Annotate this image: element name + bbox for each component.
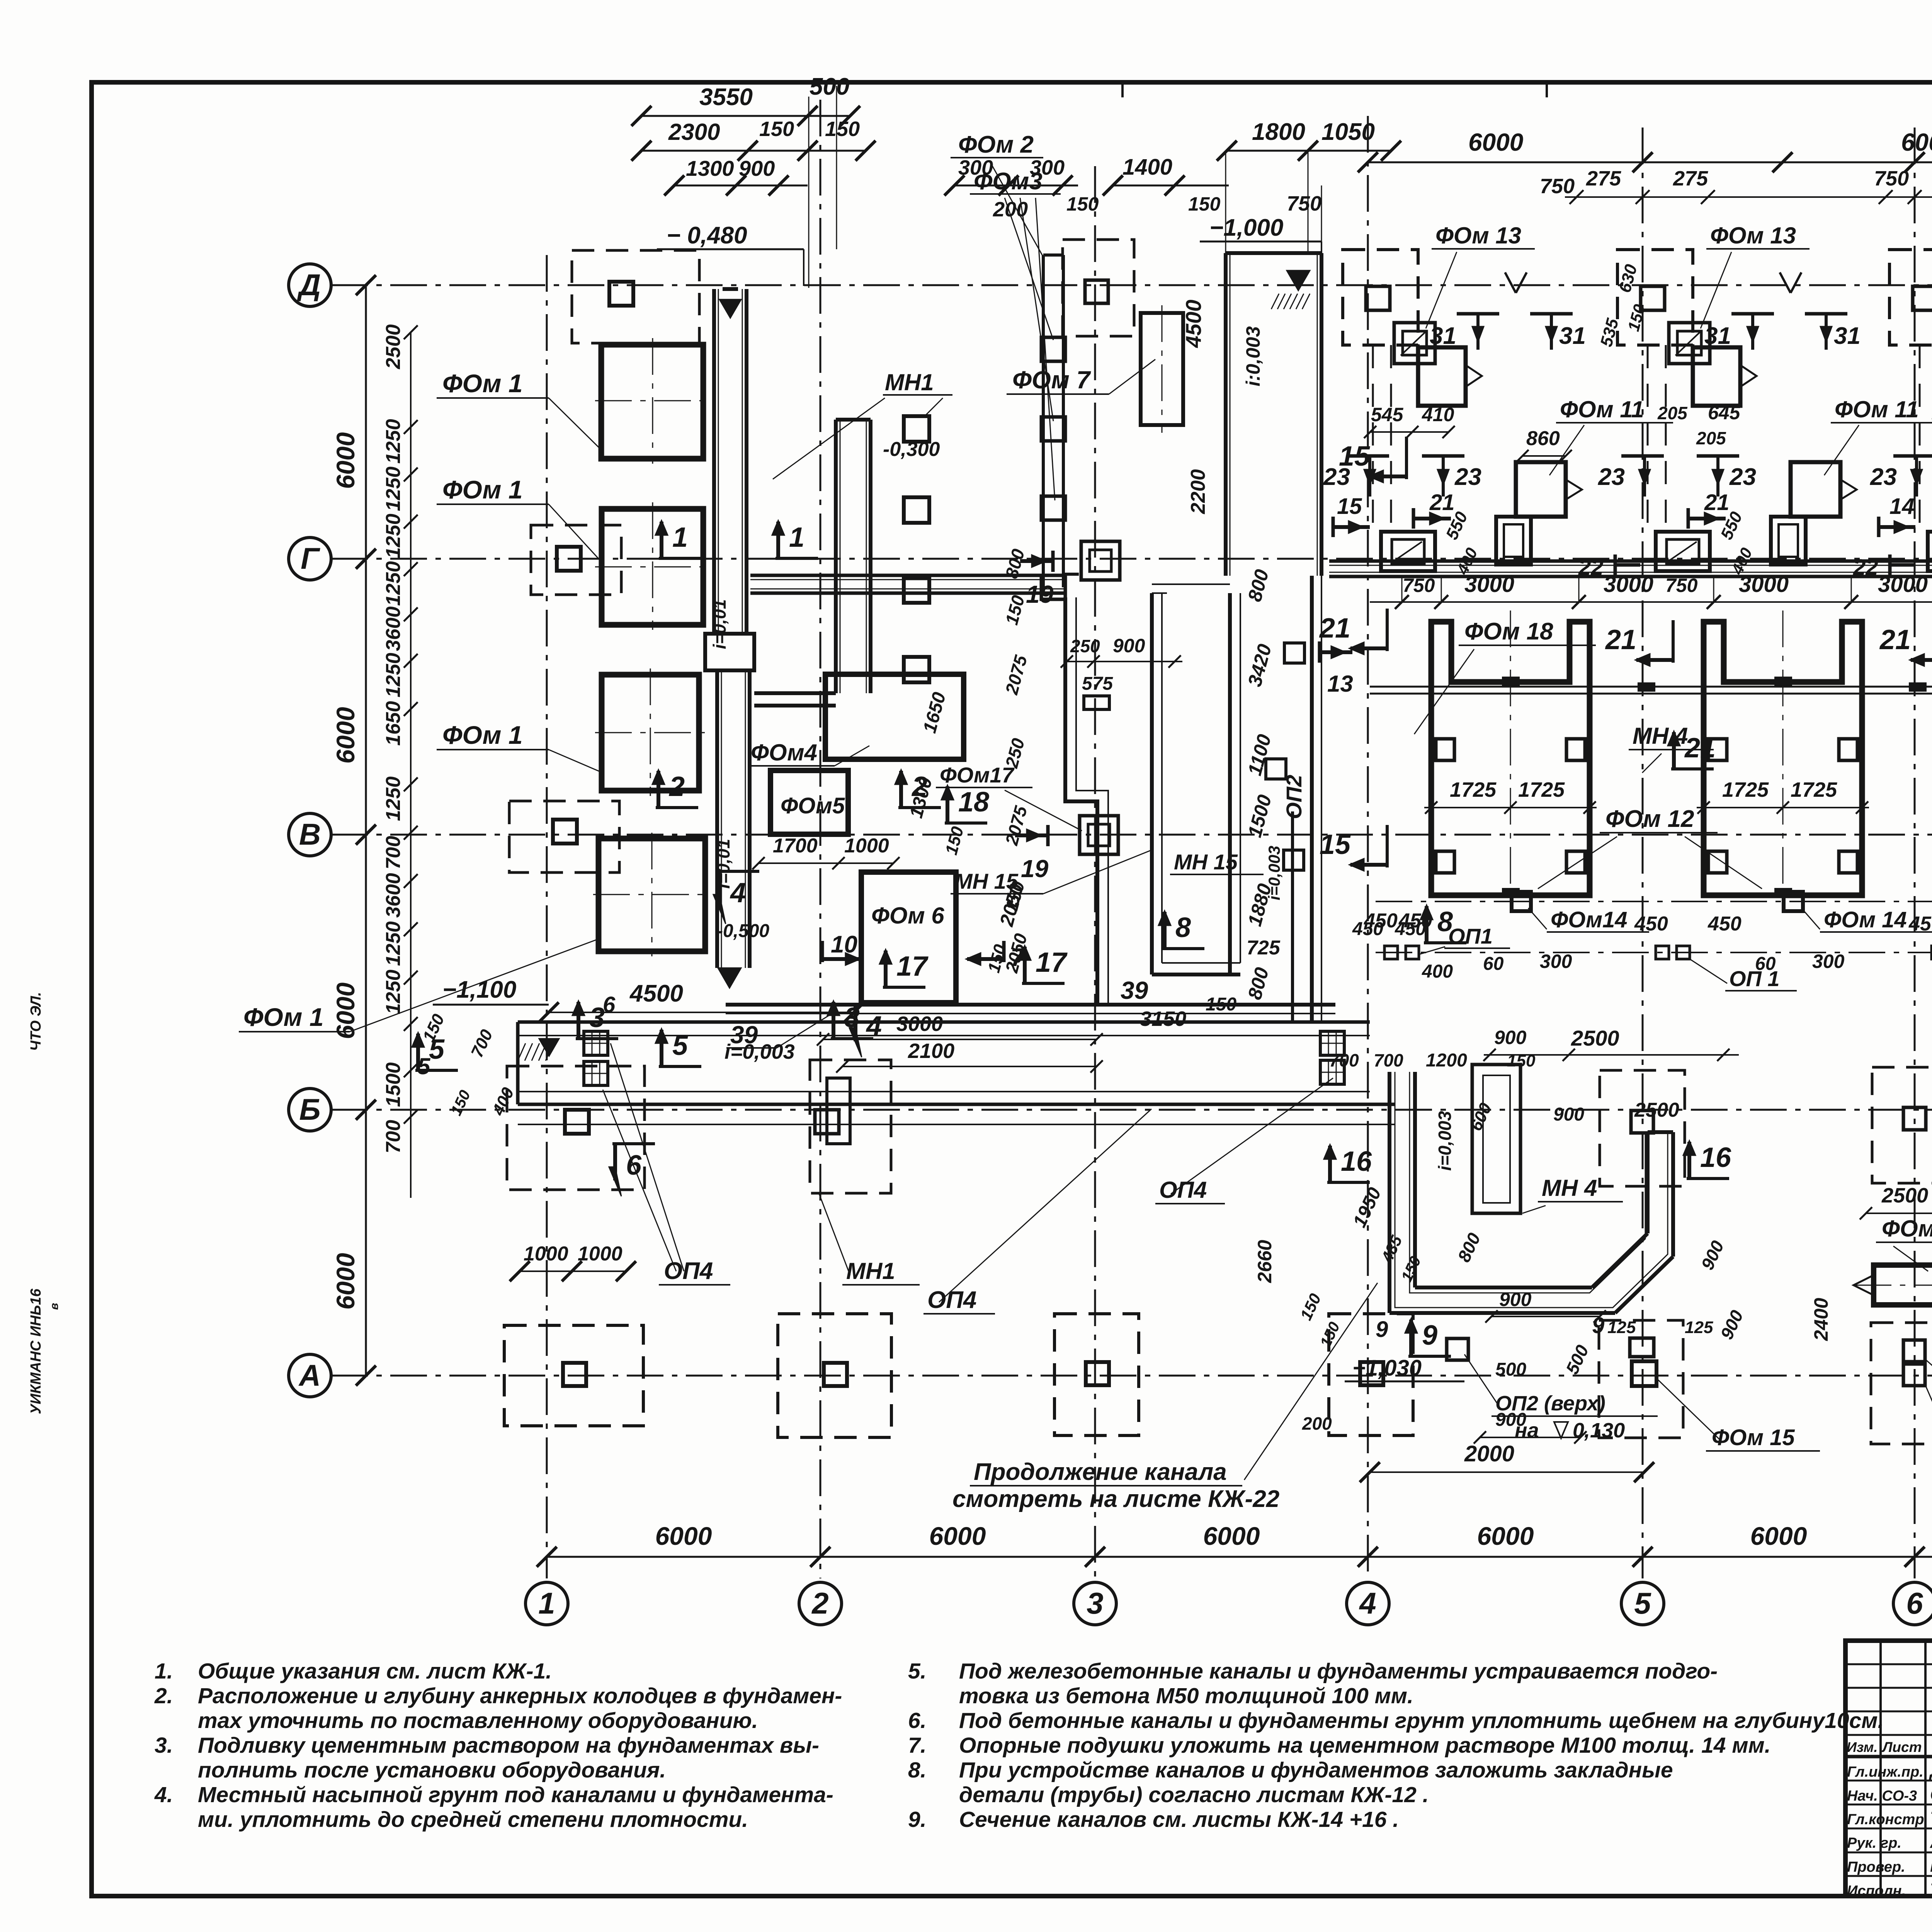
svg-text:1000: 1000 [524, 1243, 568, 1265]
trench hatch left [518, 1043, 526, 1061]
svg-text:ФОм 15: ФОм 15 [1712, 1425, 1795, 1450]
pad 575 rect [1084, 696, 1109, 709]
svg-text:750: 750 [1874, 167, 1909, 190]
svg-text:смотреть на листе КЖ-22: смотреть на листе КЖ-22 [952, 1486, 1279, 1512]
kanala leader [1244, 1283, 1378, 1480]
svg-text:1700: 1700 [773, 835, 818, 857]
svg-text:− 0,480: − 0,480 [667, 222, 747, 249]
section 23 marks [1621, 454, 1664, 458]
axis bubble 5 [1621, 1582, 1664, 1625]
svg-text:1250: 1250 [382, 921, 405, 966]
svg-text:−1,100: −1,100 [442, 976, 516, 1003]
dim 2000 row A [1370, 1471, 1644, 1473]
svg-text:15: 15 [1320, 829, 1351, 860]
section 19 upper mark and pad [1051, 551, 1055, 572]
boiler axis dashed band [1372, 345, 1374, 532]
svg-text:ОП4: ОП4 [1159, 1177, 1207, 1203]
axis line Г [331, 558, 1932, 560]
section 5 right [659, 1065, 701, 1068]
footing dashed row A col3 [1054, 1314, 1139, 1435]
foundation FOm4 area [825, 674, 964, 759]
foundation FOm1 block 2 [602, 509, 703, 625]
svg-text:15: 15 [1339, 441, 1370, 472]
svg-text:Нач. СО-3: Нач. СО-3 [1847, 1788, 1917, 1804]
channel along B to col4 [518, 1124, 1395, 1125]
jog channel around FOm17 pads [1065, 597, 1097, 1005]
svg-text:Апсе .: Апсе . [1930, 1832, 1932, 1852]
svg-text:410: 410 [1422, 404, 1454, 425]
dim 900 op2 [1492, 1316, 1600, 1317]
svg-text:300: 300 [1812, 951, 1845, 972]
svg-text:10: 10 [831, 931, 857, 958]
section 21 marks combs [1386, 609, 1389, 651]
FOm2 leader line [989, 160, 1043, 257]
burner foundation rect [1693, 347, 1740, 406]
footing dashed row A col1 [504, 1325, 643, 1426]
svg-text:1800: 1800 [1252, 119, 1305, 145]
svg-text:i=0,003: i=0,003 [1435, 1111, 1455, 1171]
dims 3000 2100 3150 [823, 1039, 1097, 1040]
tall pad [1496, 517, 1531, 565]
comb gap filled pads [1638, 683, 1655, 691]
svg-text:Олешко: Олешко [1930, 1784, 1932, 1804]
canal below G right wall [1310, 576, 1314, 1022]
svg-text:МН 15: МН 15 [1174, 850, 1238, 874]
svg-text:21: 21 [1319, 613, 1350, 644]
svg-text:ОП4: ОП4 [664, 1258, 713, 1284]
svg-text:8: 8 [1437, 906, 1453, 937]
top dimension 1300/900 [674, 185, 808, 187]
svg-text:3150: 3150 [1140, 1007, 1186, 1031]
svg-text:Б: Б [299, 1092, 320, 1126]
foundation FOm1 block 1 [601, 345, 703, 459]
FOm13 dashed footing col 5 [1617, 250, 1693, 345]
svg-text:ФОм 16: ФОм 16 [1882, 1216, 1932, 1242]
svg-text:4: 4 [866, 1011, 882, 1042]
comb pads [1436, 739, 1454, 760]
svg-text:1: 1 [789, 522, 804, 553]
svg-text:Рук. гр.: Рук. гр. [1847, 1835, 1901, 1851]
svg-text:2400: 2400 [1810, 1298, 1832, 1341]
svg-text:900: 900 [1499, 1289, 1532, 1310]
svg-text:3000: 3000 [1604, 572, 1653, 597]
svg-text:1250: 1250 [382, 776, 405, 821]
svg-text:0,130: 0,130 [1573, 1419, 1625, 1442]
fold mark top 2 [1546, 82, 1548, 97]
svg-text:21: 21 [1429, 490, 1455, 515]
svg-text:ФОм3: ФОм3 [974, 168, 1043, 195]
svg-text:3: 3 [1087, 1586, 1103, 1620]
FOm13 dashed footing col 4 [1343, 250, 1418, 345]
svg-text:ФОм 1: ФОм 1 [442, 475, 523, 504]
channel MN1 junction box [705, 634, 754, 670]
svg-text:i=0,01: i=0,01 [709, 599, 730, 649]
canal central wide [1224, 253, 1228, 576]
svg-text:ОП2: ОП2 [1282, 775, 1306, 819]
svg-text:6000: 6000 [655, 1522, 712, 1550]
svg-text:1250: 1250 [382, 653, 405, 697]
svg-text:450: 450 [1908, 913, 1932, 935]
section 31 right [1805, 312, 1847, 316]
section 18 mark [945, 821, 987, 825]
section 31 right [1530, 312, 1573, 316]
title block outline [1845, 1641, 1932, 1896]
svg-text:8.: 8. [908, 1758, 927, 1782]
svg-text:Общие указания см. лист КЖ: Общие указания см. лист КЖ-1. [198, 1659, 552, 1684]
svg-text:1725: 1725 [1722, 778, 1769, 801]
footing FOm15 col5 [1599, 1320, 1683, 1438]
svg-text:4500: 4500 [629, 980, 683, 1007]
svg-text:3000: 3000 [1878, 572, 1928, 597]
svg-text:ФОм4: ФОм4 [751, 740, 817, 765]
svg-text:ФОм 11: ФОм 11 [1835, 396, 1919, 422]
svg-text:3.: 3. [155, 1733, 173, 1758]
channel H39 [726, 1003, 1335, 1007]
dims 1700 1000 [759, 862, 893, 864]
svg-text:250: 250 [1070, 636, 1100, 656]
pi loop top connector [1152, 583, 1230, 585]
channel G horizontal left [750, 574, 1065, 577]
svg-text:31: 31 [1834, 323, 1861, 349]
svg-text:ФОм14: ФОм14 [1551, 907, 1628, 932]
section 19 lower mark [1046, 825, 1050, 846]
svg-text:1725: 1725 [1518, 778, 1565, 801]
svg-text:21: 21 [1879, 624, 1911, 655]
section 7 mark [1002, 941, 1006, 962]
svg-text:5: 5 [429, 1034, 445, 1065]
section 15 mark [1332, 517, 1335, 537]
column footing dashed D1 [572, 250, 699, 343]
section 31 left [1731, 312, 1774, 316]
svg-text:ФОм17: ФОм17 [940, 763, 1015, 787]
burner foundation rect [1418, 347, 1466, 406]
svg-text:Гл.инж.пр.: Гл.инж.пр. [1847, 1764, 1923, 1780]
svg-text:3000: 3000 [1464, 572, 1514, 597]
svg-text:31: 31 [1704, 323, 1731, 349]
svg-text:1250: 1250 [382, 466, 405, 511]
svg-text:−1,030: −1,030 [1352, 1355, 1422, 1381]
top dimension 300/300/200 [954, 185, 1078, 187]
svg-text:31: 31 [1430, 323, 1456, 349]
top dimension lines 3550/500 [641, 115, 850, 117]
svg-text:полнить после установки об: полнить после установки оборудования. [198, 1758, 666, 1782]
svg-text:14: 14 [1889, 494, 1915, 519]
section mark 1 pair [659, 557, 701, 560]
left secondary dimension chain [410, 332, 412, 1198]
axis bubble 4 [1347, 1582, 1389, 1625]
G axis pad [1381, 532, 1435, 571]
svg-text:2500: 2500 [382, 324, 405, 369]
channel branch to MN1 [754, 691, 836, 695]
svg-text:15: 15 [1337, 494, 1362, 519]
U channel MN4 [1388, 1072, 1391, 1313]
svg-text:Трейс: Трейс [1930, 1808, 1932, 1828]
svg-text:205: 205 [1657, 403, 1688, 423]
svg-text:тах уточнить по поставленно: тах уточнить по поставленному оборудован… [198, 1708, 758, 1733]
left dimension chain 6000 [365, 285, 367, 1376]
section 23 marks [1347, 454, 1389, 458]
svg-text:5: 5 [672, 1030, 688, 1061]
svg-text:Исполн.: Исполн. [1847, 1883, 1906, 1899]
column footing dashed V1 [509, 801, 619, 872]
svg-text:125: 125 [1607, 1318, 1636, 1337]
svg-text:1725: 1725 [1791, 778, 1837, 801]
pi loop bottom [1152, 973, 1240, 976]
channel MN1 bottom arrow [718, 968, 741, 988]
svg-text:Опорные подушки уложить на: Опорные подушки уложить на цементном рас… [959, 1733, 1770, 1758]
svg-text:6000: 6000 [331, 432, 360, 489]
comb dims 1725 1725 [1697, 807, 1869, 808]
G axis pad [1928, 532, 1932, 571]
dashed footing D col2-3 [1063, 240, 1134, 336]
svg-text:6.: 6. [908, 1708, 927, 1733]
top dimension 1800/1050 col4 [1227, 150, 1391, 152]
svg-text:МН1: МН1 [846, 1258, 895, 1284]
svg-text:150: 150 [825, 117, 860, 141]
FOm13 pad [1394, 323, 1435, 364]
svg-text:500: 500 [1495, 1359, 1526, 1380]
axis line Б [331, 1109, 1932, 1111]
bottom dimension line 6000 chain [547, 1556, 1932, 1558]
svg-text:60: 60 [1483, 954, 1504, 974]
svg-text:3000: 3000 [896, 1012, 943, 1036]
dims 860 [1522, 455, 1566, 457]
svg-text:2000: 2000 [1464, 1441, 1514, 1466]
svg-text:900: 900 [1494, 1027, 1527, 1048]
axis line OP1 intermediate [1376, 952, 1932, 953]
svg-text:21: 21 [1704, 490, 1730, 515]
svg-text:575: 575 [1082, 673, 1113, 694]
svg-text:1: 1 [538, 1586, 555, 1620]
svg-text:1200: 1200 [1426, 1050, 1467, 1071]
MN1 pads column [904, 416, 929, 442]
extension lines canal top [1225, 153, 1226, 255]
svg-text:23: 23 [1870, 464, 1897, 490]
axis bubble Г [289, 537, 331, 580]
dims 250 900 row1 [1067, 661, 1182, 662]
pads on OP2 canal [1284, 643, 1304, 663]
svg-text:5: 5 [1634, 1586, 1651, 1620]
svg-text:150: 150 [759, 117, 794, 141]
svg-text:А: А [298, 1358, 321, 1392]
section 17 marks [883, 986, 925, 989]
svg-text:-0,300: -0,300 [883, 438, 940, 461]
svg-text:ФОм 6: ФОм 6 [871, 903, 944, 929]
svg-text:ФОм 12: ФОм 12 [1605, 806, 1694, 832]
svg-text:450: 450 [1634, 913, 1668, 935]
section 14 mark [1877, 517, 1881, 537]
section 31 left [1457, 312, 1499, 316]
FOm3 pads column [1041, 337, 1065, 361]
section mark 4 pair [717, 870, 759, 873]
svg-text:450: 450 [1395, 919, 1426, 939]
pi loop MN15 right wall [1228, 593, 1232, 975]
svg-text:9: 9 [1422, 1320, 1437, 1351]
svg-text:2.: 2. [154, 1684, 173, 1708]
svg-text:i=0,003: i=0,003 [1265, 846, 1283, 900]
svg-text:МН 4: МН 4 [1542, 1175, 1597, 1201]
axis line 2 [820, 100, 821, 1578]
axis bubble А [289, 1354, 331, 1397]
svg-text:750: 750 [1287, 192, 1321, 215]
svg-text:150: 150 [1206, 994, 1236, 1015]
canal hatch top [1287, 270, 1310, 291]
section mark 3 pair [576, 1037, 618, 1040]
svg-text:Местный насыпной грунт под: Местный насыпной грунт под каналами и фу… [198, 1782, 833, 1807]
svg-text:ФОм 11: ФОм 11 [1560, 396, 1644, 422]
svg-text:УИКМАНС ИНЬ16: УИКМАНС ИНЬ16 [28, 1288, 44, 1414]
section 21 mark [1687, 508, 1690, 529]
svg-text:1.: 1. [155, 1659, 173, 1684]
svg-text:500: 500 [810, 73, 849, 100]
svg-text:1250: 1250 [382, 419, 405, 464]
svg-text:4: 4 [1359, 1586, 1376, 1620]
svg-text:7.: 7. [908, 1733, 927, 1758]
channel second vertical [834, 420, 838, 693]
svg-text:13: 13 [1327, 671, 1353, 697]
svg-text:6: 6 [1906, 1586, 1923, 1620]
fold mark top 1 [1121, 82, 1124, 97]
boiler foundation FOm12 outline at x=3704 [1431, 622, 1590, 895]
axis bubble 1 [526, 1582, 568, 1625]
svg-text:Продолжение канала: Продолжение канала [974, 1459, 1227, 1485]
FOm13 pad [1669, 323, 1710, 364]
channel OP2 inner [1291, 811, 1294, 1022]
axis break mark [1505, 272, 1516, 293]
svg-text:ФОм 13: ФОм 13 [1435, 223, 1521, 248]
revision table lines [1845, 1663, 1932, 1665]
comb center line [1782, 611, 1784, 908]
comb bottom filled pad [1775, 889, 1791, 896]
svg-text:1725: 1725 [1450, 778, 1497, 801]
svg-text:39: 39 [1121, 976, 1148, 1004]
svg-text:6: 6 [603, 992, 616, 1017]
section mark 2 pair [656, 806, 698, 809]
svg-text:450: 450 [1708, 913, 1742, 935]
svg-text:17: 17 [896, 951, 929, 982]
foundation FOm1 block 3 [602, 675, 699, 791]
svg-text:1250: 1250 [382, 969, 405, 1014]
svg-text:2300: 2300 [668, 119, 720, 145]
svg-text:19: 19 [1021, 855, 1049, 883]
comb bottom filled pad [1503, 889, 1519, 896]
dim row 2500 920 2500 1000 [1866, 1213, 1932, 1214]
svg-text:2660: 2660 [1254, 1240, 1276, 1283]
svg-text:Гл.констр: Гл.констр [1847, 1811, 1924, 1828]
axis line 5 [1642, 128, 1644, 1578]
svg-text:900: 900 [739, 156, 775, 180]
axis line 1 [546, 255, 548, 1578]
svg-text:150: 150 [1188, 193, 1221, 215]
svg-text:700: 700 [1374, 1050, 1403, 1070]
svg-text:3550: 3550 [699, 84, 753, 111]
boiler foundation FOm12 outline at x=4409 [1704, 622, 1862, 895]
svg-text:6000: 6000 [331, 1253, 360, 1310]
svg-text:ФОм 1: ФОм 1 [243, 1003, 324, 1031]
boiler axis dashed band [1919, 345, 1921, 532]
svg-text:1: 1 [672, 522, 688, 553]
svg-text:1400: 1400 [1122, 155, 1172, 180]
svg-text:1500: 1500 [382, 1062, 405, 1107]
pad FOm17 lower [1080, 816, 1118, 854]
top dimension 2300/150/150 [641, 150, 866, 152]
axis line Д [331, 284, 1932, 286]
svg-text:60: 60 [1755, 954, 1776, 974]
svg-text:125: 125 [1685, 1318, 1713, 1337]
svg-text:31: 31 [1559, 323, 1586, 349]
svg-text:900: 900 [1113, 635, 1145, 656]
dims 3000 chain [1370, 601, 1932, 603]
svg-text:2100: 2100 [908, 1039, 954, 1063]
svg-text:i=0,003: i=0,003 [724, 1040, 795, 1063]
svg-text:450: 450 [1352, 919, 1383, 939]
FOm14 squares row [1512, 892, 1531, 911]
svg-text:400: 400 [1422, 961, 1453, 982]
svg-text:3600: 3600 [382, 606, 405, 651]
svg-text:Г: Г [301, 541, 320, 575]
svg-text:4: 4 [730, 878, 746, 908]
svg-text:3600: 3600 [382, 873, 405, 918]
dashed footing row A col6 [1871, 1323, 1932, 1444]
G axis pad [1656, 532, 1710, 571]
svg-text:2: 2 [811, 1586, 828, 1620]
section 9 marks [1408, 1355, 1451, 1358]
svg-text:1000: 1000 [578, 1243, 622, 1265]
svg-text:8: 8 [1175, 912, 1191, 943]
OP1 square pairs [1384, 946, 1398, 959]
section 23 marks [1893, 454, 1932, 458]
svg-text:ФОм 14: ФОм 14 [1824, 907, 1907, 932]
svg-text:150: 150 [1066, 193, 1099, 215]
footing dashed row A col4 [1329, 1314, 1413, 1435]
svg-text:6000: 6000 [1477, 1522, 1534, 1550]
axis bubble 6 [1893, 1582, 1932, 1625]
FOm3 leader lines [1005, 198, 1053, 340]
svg-text:Д: Д [297, 268, 321, 302]
svg-text:1050: 1050 [1321, 119, 1375, 145]
U channel inner lines [1395, 1072, 1668, 1308]
section 16 marks [1327, 1181, 1370, 1184]
svg-text:ОП2 (верх): ОП2 (верх) [1495, 1392, 1605, 1415]
svg-text:2200: 2200 [1187, 469, 1209, 514]
trench OP4 wide [518, 1020, 1370, 1024]
axis line А [331, 1375, 1932, 1377]
svg-text:150: 150 [1507, 1051, 1536, 1070]
svg-text:275: 275 [1586, 167, 1621, 190]
axis bubble Б [289, 1088, 331, 1131]
svg-text:ФОм 1: ФОм 1 [442, 369, 523, 398]
svg-text:750: 750 [1665, 575, 1698, 596]
section 13 mark canal [1318, 641, 1321, 663]
svg-text:860: 860 [1526, 427, 1560, 450]
svg-text:Расположение и глубину анкер: Расположение и глубину анкерных колодцев… [198, 1684, 842, 1708]
svg-text:Подливку цементным раствором: Подливку цементным раствором на фундамен… [198, 1733, 819, 1758]
svg-text:детали (трубы) согласно лис: детали (трубы) согласно листам КЖ-12 . [959, 1782, 1429, 1807]
foundation FOm6 [861, 872, 956, 1003]
svg-text:ЧТО ЭЛ.: ЧТО ЭЛ. [28, 992, 44, 1051]
svg-text:23: 23 [1729, 464, 1756, 490]
svg-text:9.: 9. [908, 1807, 927, 1832]
svg-text:6000: 6000 [929, 1522, 986, 1550]
svg-text:2: 2 [668, 771, 685, 802]
column footing dashed G1 [531, 525, 621, 595]
row B dashed footings right [1600, 1070, 1685, 1186]
svg-text:700: 700 [382, 836, 405, 869]
svg-text:750: 750 [1540, 175, 1575, 198]
top dimension 6000/6000/3000 right [1368, 162, 1932, 163]
svg-text:1250: 1250 [382, 561, 405, 606]
foundation FOm7 [1141, 313, 1183, 425]
